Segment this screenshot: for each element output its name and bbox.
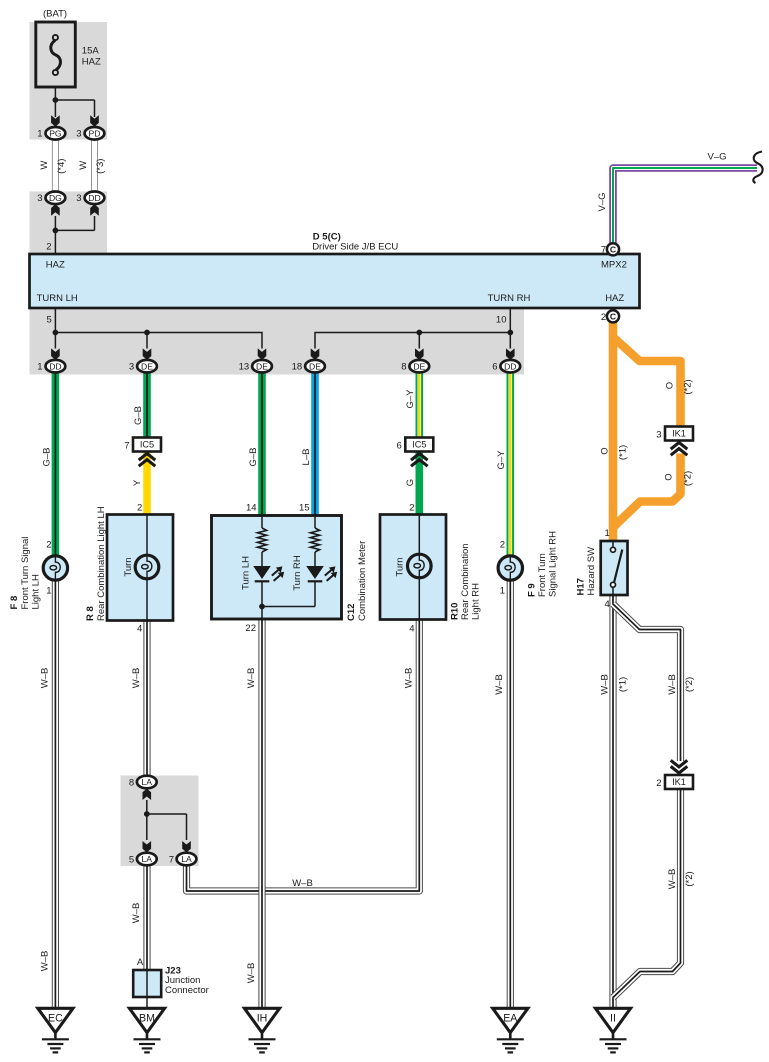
svg-text:18: 18 (292, 362, 303, 373)
svg-text:(*3): (*3) (95, 159, 106, 174)
svg-text:G–Y: G–Y (496, 450, 507, 470)
svg-text:EC: EC (48, 1013, 63, 1025)
svg-text:W: W (78, 161, 89, 170)
svg-text:O: O (600, 447, 611, 454)
svg-text:DG: DG (49, 193, 62, 203)
svg-text:W–B: W–B (246, 963, 257, 984)
svg-text:6: 6 (492, 362, 497, 373)
svg-text:(*1): (*1) (618, 445, 629, 460)
svg-text:DE: DE (141, 361, 153, 371)
svg-text:(*2): (*2) (684, 871, 695, 886)
svg-text:LA: LA (142, 777, 153, 787)
svg-text:Driver Side J/B ECU: Driver Side J/B ECU (312, 242, 398, 253)
svg-text:G: G (405, 479, 416, 486)
svg-text:2: 2 (656, 778, 661, 789)
svg-text:W–B: W–B (404, 668, 415, 689)
svg-text:(BAT): (BAT) (43, 8, 67, 19)
svg-text:2: 2 (46, 242, 51, 253)
svg-text:DE: DE (309, 361, 321, 371)
svg-text:IK1: IK1 (672, 777, 686, 787)
svg-text:O: O (664, 473, 675, 480)
svg-text:DE: DE (256, 361, 268, 371)
svg-text:(*2): (*2) (683, 379, 694, 394)
svg-text:W–B: W–B (131, 903, 142, 924)
svg-text:W–B: W–B (667, 869, 678, 890)
svg-text:2: 2 (137, 503, 142, 514)
svg-text:2: 2 (46, 540, 51, 551)
svg-text:Combination Meter: Combination Meter (357, 541, 368, 621)
svg-text:HAZ: HAZ (46, 260, 65, 271)
svg-text:W–B: W–B (494, 674, 505, 695)
svg-text:HAZ: HAZ (605, 293, 624, 304)
svg-text:1: 1 (605, 528, 610, 539)
svg-text:G–B: G–B (133, 406, 144, 425)
svg-text:13: 13 (239, 362, 250, 373)
svg-text:W–B: W–B (246, 668, 257, 689)
svg-text:15: 15 (299, 503, 310, 514)
svg-text:Light RH: Light RH (470, 583, 481, 620)
svg-text:A: A (137, 957, 144, 968)
svg-text:7: 7 (601, 245, 606, 256)
svg-text:R10: R10 (450, 603, 461, 620)
svg-text:8: 8 (401, 362, 406, 373)
svg-text:1: 1 (37, 129, 42, 140)
svg-text:Turn: Turn (123, 557, 134, 576)
svg-text:TURN RH: TURN RH (488, 293, 531, 304)
svg-text:W–B: W–B (292, 878, 313, 889)
svg-text:5: 5 (129, 854, 134, 865)
svg-text:Front Turn Signal: Front Turn Signal (20, 537, 31, 610)
svg-text:15A: 15A (82, 46, 100, 57)
svg-text:C: C (610, 245, 616, 255)
svg-text:F 9: F 9 (527, 583, 538, 597)
svg-text:22: 22 (245, 623, 256, 634)
svg-text:6: 6 (397, 441, 402, 452)
svg-text:V–G: V–G (597, 192, 608, 211)
svg-text:3: 3 (37, 193, 42, 204)
svg-text:DE: DE (413, 361, 425, 371)
svg-text:3: 3 (656, 430, 661, 441)
svg-text:IH: IH (257, 1013, 268, 1025)
svg-text:G–B: G–B (41, 447, 52, 466)
svg-text:Turn: Turn (394, 557, 405, 576)
svg-text:W: W (39, 161, 50, 170)
svg-text:PG: PG (49, 128, 62, 138)
svg-text:4: 4 (605, 599, 610, 610)
svg-text:PD: PD (89, 128, 101, 138)
svg-text:8: 8 (129, 777, 134, 788)
svg-text:W–B: W–B (39, 668, 50, 689)
svg-text:Connector: Connector (165, 985, 209, 996)
svg-text:W–B: W–B (667, 674, 678, 695)
svg-text:4: 4 (137, 624, 142, 635)
svg-text:10: 10 (496, 315, 507, 326)
svg-text:Turn LH: Turn LH (241, 556, 252, 590)
svg-text:5: 5 (47, 315, 52, 326)
svg-text:3: 3 (76, 193, 81, 204)
svg-text:F 8: F 8 (9, 596, 20, 610)
svg-text:DD: DD (49, 361, 61, 371)
svg-text:R 8: R 8 (85, 606, 96, 621)
svg-text:IC5: IC5 (140, 440, 154, 450)
svg-text:3: 3 (76, 129, 81, 140)
svg-text:Turn RH: Turn RH (292, 555, 303, 591)
svg-text:(*1): (*1) (618, 677, 629, 692)
svg-text:O: O (664, 382, 675, 389)
svg-text:C12: C12 (346, 604, 357, 621)
svg-text:LA: LA (142, 854, 153, 864)
svg-text:7: 7 (169, 854, 174, 865)
svg-text:2: 2 (500, 540, 505, 551)
svg-text:W–B: W–B (600, 674, 611, 695)
svg-text:1: 1 (46, 586, 51, 597)
svg-text:1: 1 (37, 362, 42, 373)
svg-text:1: 1 (500, 586, 505, 597)
svg-text:C: C (610, 312, 616, 322)
svg-text:W–B: W–B (131, 668, 142, 689)
svg-text:Rear Combination: Rear Combination (460, 543, 471, 620)
svg-text:Y: Y (132, 479, 143, 486)
svg-text:L–B: L–B (301, 449, 312, 466)
svg-text:2: 2 (601, 312, 606, 323)
svg-text:14: 14 (246, 503, 257, 514)
svg-text:2: 2 (409, 503, 414, 514)
svg-text:3: 3 (129, 362, 134, 373)
svg-text:(*2): (*2) (684, 677, 695, 692)
svg-text:MPX2: MPX2 (601, 260, 627, 271)
svg-text:Hazard SW: Hazard SW (586, 547, 597, 596)
svg-text:LA: LA (181, 854, 192, 864)
svg-text:4: 4 (409, 624, 414, 635)
svg-text:TURN LH: TURN LH (37, 293, 78, 304)
svg-text:BM: BM (139, 1013, 155, 1025)
svg-text:II: II (610, 1013, 616, 1025)
svg-text:IK1: IK1 (672, 429, 686, 439)
svg-text:Signal Light RH: Signal Light RH (547, 531, 558, 597)
svg-text:W–B: W–B (39, 951, 50, 972)
svg-text:V–G: V–G (707, 152, 726, 163)
svg-text:EA: EA (503, 1013, 518, 1025)
svg-text:(*2): (*2) (683, 471, 694, 486)
svg-text:Rear Combination Light LH: Rear Combination Light LH (96, 506, 107, 621)
svg-text:7: 7 (124, 441, 129, 452)
svg-text:Light LH: Light LH (31, 574, 42, 610)
svg-text:G–B: G–B (248, 447, 259, 466)
svg-text:IC5: IC5 (412, 440, 426, 450)
svg-text:DD: DD (504, 361, 516, 371)
svg-text:G–Y: G–Y (405, 389, 416, 409)
svg-text:DD: DD (88, 193, 100, 203)
svg-text:HAZ: HAZ (82, 56, 101, 67)
svg-text:(*4): (*4) (56, 159, 67, 174)
